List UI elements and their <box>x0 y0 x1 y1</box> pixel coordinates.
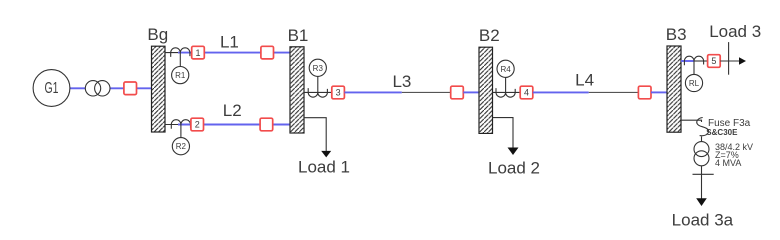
wire bus B3 to CT (blue) <box>681 60 694 62</box>
svg-text:L2: L2 <box>223 101 242 120</box>
wire CT to relay R2 <box>180 125 182 138</box>
wire Load 3 vertical stub <box>728 42 730 75</box>
relay RL <box>685 74 702 91</box>
wire bus Bg to breaker 1 (black) <box>165 52 192 54</box>
breaker mid-L1 (unnumbered) <box>261 46 274 59</box>
wire CT to relay R1 <box>179 53 181 67</box>
wire bus B1 to Load 1 arrow <box>304 118 326 151</box>
line L4 black segment <box>589 91 639 93</box>
breaker (generator, unnumbered red square) <box>124 82 137 95</box>
line L2 (blue wire) <box>178 124 290 126</box>
svg-text:S&C30E: S&C30E <box>706 128 738 137</box>
CT on B1 right branch <box>308 88 327 97</box>
arrow Load 3a <box>696 198 707 206</box>
bus Bg <box>152 46 166 132</box>
svg-text:L3: L3 <box>392 72 411 91</box>
breaker mid-L2 (unnumbered) <box>260 118 273 131</box>
svg-text:Load 1: Load 1 <box>298 158 350 177</box>
svg-text:B2: B2 <box>479 26 500 45</box>
wire bus B2 to breaker 4 (black) <box>493 91 521 93</box>
svg-text:RL: RL <box>689 79 700 88</box>
svg-text:Bg: Bg <box>147 25 168 44</box>
CT on Bg top branch <box>171 48 190 57</box>
relay R3 <box>309 59 326 76</box>
wire bus B3 to fuse <box>681 120 702 122</box>
wire CT to relay R4 <box>505 77 507 92</box>
svg-text:L4: L4 <box>575 71 594 90</box>
wire generator G1 to transformer (blue) <box>70 87 86 89</box>
svg-text:B1: B1 <box>288 26 309 45</box>
svg-text:1: 1 <box>195 48 200 58</box>
svg-text:L1: L1 <box>220 33 239 52</box>
breaker 4 <box>520 86 533 99</box>
transformer T2 (two circles) <box>694 142 709 166</box>
line L3 black segment <box>402 91 451 93</box>
relay R1 <box>172 67 189 84</box>
svg-text:Load 3: Load 3 <box>709 22 761 41</box>
line L1 (blue wire) <box>178 52 290 54</box>
svg-text:3: 3 <box>336 88 341 98</box>
wire transformer T2 to Load 3a arrow <box>701 166 703 199</box>
svg-text:R3: R3 <box>313 64 324 73</box>
wire mid-L3 breaker to bus B2 (blue) <box>463 91 479 93</box>
relay R4 <box>497 60 514 77</box>
wire CT to breaker 5 (black) <box>694 60 708 62</box>
line L4 blue segment <box>533 91 589 93</box>
breaker 1 <box>192 46 205 59</box>
line L3 blue segment <box>344 91 401 93</box>
svg-text:R2: R2 <box>176 142 187 151</box>
breaker mid-L3 (unnumbered) <box>451 86 464 99</box>
wire bus Bg to breaker 2 (black) <box>165 124 191 126</box>
bus B3 <box>667 46 681 132</box>
svg-text:Load 2: Load 2 <box>488 159 540 178</box>
svg-text:Load 3a: Load 3a <box>672 211 734 230</box>
svg-text:R4: R4 <box>500 65 511 74</box>
wire CT to relay RL <box>693 61 695 74</box>
svg-text:5: 5 <box>711 56 716 66</box>
CT on Bg bottom branch <box>171 120 190 129</box>
svg-text:4: 4 <box>524 88 529 98</box>
bus B2 <box>479 47 493 133</box>
svg-text:R1: R1 <box>175 71 186 80</box>
wire bus B1 to breaker 3 (black) <box>304 91 332 93</box>
svg-text:B3: B3 <box>666 25 687 44</box>
wire mid-L4 breaker to bus B3 (blue) <box>651 91 667 93</box>
wire fuse to transformer T2 <box>701 137 703 142</box>
fuse F3a (S&C 30E) <box>697 118 709 136</box>
generator G1 <box>33 70 70 107</box>
svg-text:4 MVA: 4 MVA <box>715 158 741 168</box>
breaker mid-L4 (unnumbered) <box>638 86 651 99</box>
wire CT to relay R3 <box>317 76 319 92</box>
arrow Load 2 <box>508 148 519 156</box>
arrow Load 3 (points right) <box>739 57 746 65</box>
wire breaker 5 to Load 3 arrow <box>720 60 739 62</box>
CT on B2 right branch <box>496 88 515 97</box>
breaker 5 <box>708 55 721 68</box>
svg-text:2: 2 <box>195 120 200 130</box>
CT on B3 top branch <box>684 56 703 65</box>
arrow Load 1 <box>321 151 331 158</box>
bus B1 <box>290 47 304 133</box>
transformer T1 (two circles) <box>85 81 110 96</box>
transformer secondary tick <box>693 173 714 175</box>
relay R2 <box>172 138 189 155</box>
breaker 3 <box>332 86 345 99</box>
svg-text:G1: G1 <box>45 80 59 97</box>
breaker 2 <box>191 118 204 131</box>
wire bus B2 to Load 2 arrow <box>493 118 514 149</box>
wire transformer to breaker to bus Bg (blue) <box>110 87 152 89</box>
